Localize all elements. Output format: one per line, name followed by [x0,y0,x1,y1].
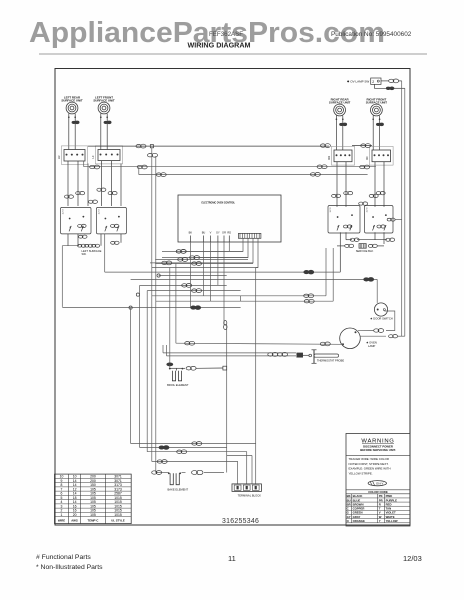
svg-text:1: 1 [61,513,63,517]
svg-text:Y: Y [379,519,381,523]
svg-text:YELLOW: YELLOW [386,519,398,523]
svg-text:LAMP: LAMP [368,344,376,348]
svg-text:FEF362ASF: FEF362ASF [209,31,243,38]
svg-text:1 2 3: 1 2 3 [99,209,101,215]
svg-text:YELLOW STRIPE.: YELLOW STRIPE. [349,471,373,475]
svg-text:GN-Y: GN-Y [376,482,384,486]
svg-text:THERMOSTAT PROBE: THERMOSTAT PROBE [317,359,345,363]
svg-text:BEFORE SERVICING UNIT.: BEFORE SERVICING UNIT. [360,448,396,452]
svg-text:1015: 1015 [114,513,122,517]
svg-text:RR: RR [327,156,331,160]
svg-text:SURFACE UNIT: SURFACE UNIT [61,99,83,103]
svg-text:RF: RF [365,156,369,160]
svg-text:WIRING DIAGRAM: WIRING DIAGRAM [187,41,250,50]
svg-text:OR: OR [222,231,226,235]
svg-text:✱ DOOR SWITCH: ✱ DOOR SWITCH [370,316,392,320]
svg-text:AWG: AWG [71,518,78,522]
svg-text:1 2 3: 1 2 3 [63,209,65,215]
svg-text:V: V [210,231,212,235]
svg-text:# Functional Parts: # Functional Parts [36,554,91,561]
svg-text:UL STYLE: UL STYLE [111,518,125,522]
svg-text:BU: BU [202,231,206,235]
svg-text:O: O [347,519,350,523]
svg-text:NOTED FIRST, STRIPE NEXT.: NOTED FIRST, STRIPE NEXT. [349,462,389,466]
svg-text:✱ OVEN: ✱ OVEN [366,341,377,345]
svg-text:RD: RD [227,231,231,235]
svg-text:Publication No: 5995400602: Publication No: 5995400602 [331,31,412,38]
svg-text:105: 105 [90,513,96,517]
svg-text:GY: GY [216,231,220,235]
svg-text:11: 11 [228,554,236,563]
svg-text:✱ OV LAMP SW: ✱ OV LAMP SW [347,79,369,83]
svg-text:EXAMPLE: GREEN WIRE WITH: EXAMPLE: GREEN WIRE WITH [349,467,391,471]
svg-text:LF: LF [91,155,95,158]
svg-text:2: 2 [372,80,374,84]
svg-text:SURFACE UNIT: SURFACE UNIT [366,101,388,105]
svg-text:LR: LR [57,156,61,159]
svg-text:316255346: 316255346 [222,518,259,525]
svg-text:SW.: SW. [82,252,87,256]
svg-text:20: 20 [73,513,77,517]
svg-text:WIRE: WIRE [58,518,65,522]
svg-text:ELECTRONIC OVEN CONTROL: ELECTRONIC OVEN CONTROL [202,202,236,205]
svg-text:1 2 3: 1 2 3 [330,207,332,213]
svg-text:SURFACE UNIT: SURFACE UNIT [93,99,115,103]
svg-text:BK: BK [189,231,193,235]
svg-text:ORANGE: ORANGE [353,519,365,523]
svg-text:1 2 3: 1 2 3 [367,207,369,213]
svg-text:TERMINAL BLOCK: TERMINAL BLOCK [238,494,262,498]
svg-text:SURFACE UNIT: SURFACE UNIT [329,101,351,105]
svg-text:TRACER WIRE: WIRE COLOR: TRACER WIRE: WIRE COLOR [349,457,389,461]
svg-text:12/03: 12/03 [403,554,422,563]
svg-text:BROIL ELEMENT: BROIL ELEMENT [167,383,189,387]
svg-text:SERVICE BLK: SERVICE BLK [356,249,374,253]
svg-text:BAKE ELEMENT: BAKE ELEMENT [168,487,189,491]
svg-text:* Non-Illustrated Parts: * Non-Illustrated Parts [36,564,103,571]
svg-text:TEMP°C: TEMP°C [88,518,99,522]
